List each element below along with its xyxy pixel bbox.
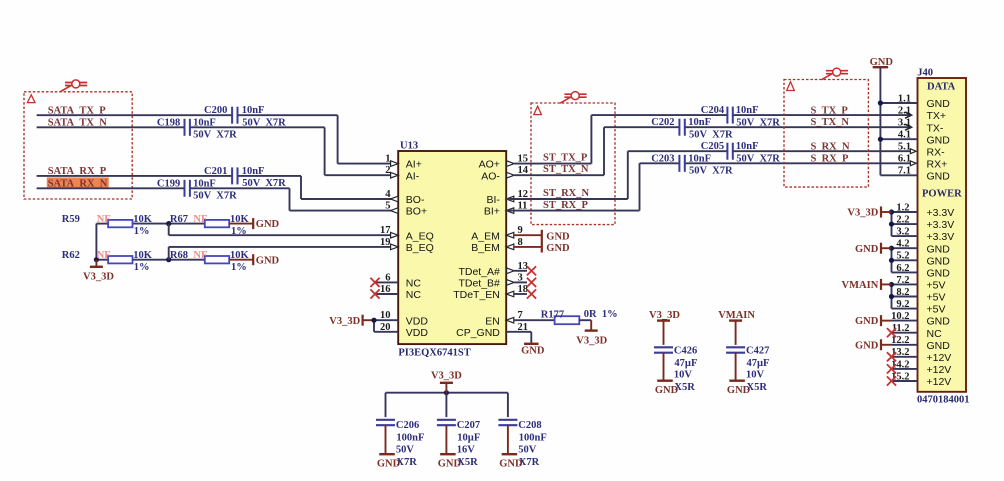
- svg-text:C200: C200: [204, 105, 227, 116]
- svg-text:R68: R68: [170, 250, 188, 261]
- svg-text:POWER: POWER: [922, 188, 962, 199]
- svg-text:R62: R62: [62, 250, 80, 261]
- svg-text:5: 5: [385, 201, 390, 212]
- svg-text:5.1: 5.1: [898, 142, 911, 153]
- svg-text:16V: 16V: [457, 444, 476, 455]
- svg-text:ST_TX_P: ST_TX_P: [543, 152, 588, 163]
- svg-text:100nF: 100nF: [396, 432, 424, 443]
- svg-text:1%: 1%: [231, 262, 247, 273]
- svg-text:0R: 0R: [584, 309, 597, 320]
- svg-text:X7R: X7R: [519, 457, 540, 468]
- svg-text:VDD: VDD: [406, 327, 429, 339]
- svg-text:C427: C427: [746, 345, 769, 356]
- svg-text:B_EM: B_EM: [471, 242, 500, 254]
- svg-text:BO-: BO-: [406, 194, 425, 206]
- svg-text:S_TX_P: S_TX_P: [811, 105, 849, 116]
- svg-text:10K: 10K: [133, 214, 153, 225]
- svg-text:+12V: +12V: [927, 376, 952, 388]
- svg-text:50V X7R: 50V X7R: [689, 130, 733, 141]
- svg-text:DATA: DATA: [927, 81, 956, 92]
- svg-text:6.1: 6.1: [898, 154, 911, 165]
- svg-text:C207: C207: [457, 420, 480, 431]
- svg-text:X5R: X5R: [747, 382, 768, 393]
- svg-text:4: 4: [385, 189, 391, 200]
- svg-text:6: 6: [385, 272, 390, 283]
- svg-text:NF: NF: [193, 214, 207, 225]
- svg-text:GND: GND: [927, 255, 951, 267]
- svg-text:10nF: 10nF: [193, 178, 216, 189]
- svg-text:BI+: BI+: [484, 206, 500, 218]
- svg-text:V3_3D: V3_3D: [83, 272, 114, 283]
- svg-text:50V X7R: 50V X7R: [193, 191, 237, 202]
- svg-text:S_RX_P: S_RX_P: [811, 154, 850, 165]
- svg-text:X5R: X5R: [457, 457, 478, 468]
- svg-text:GND: GND: [927, 340, 951, 352]
- svg-text:1.1: 1.1: [898, 93, 911, 104]
- svg-text:GND: GND: [546, 231, 570, 242]
- svg-text:R67: R67: [170, 214, 188, 225]
- svg-text:1%: 1%: [602, 309, 618, 320]
- svg-text:RX-: RX-: [927, 146, 946, 158]
- svg-text:10nF: 10nF: [193, 117, 216, 128]
- svg-text:10nF: 10nF: [688, 117, 711, 128]
- svg-text:U13: U13: [400, 140, 418, 151]
- svg-text:A_EQ: A_EQ: [406, 230, 434, 242]
- svg-text:50V: 50V: [518, 444, 537, 455]
- svg-text:TX+: TX+: [927, 110, 947, 122]
- svg-text:TDeT_EN: TDeT_EN: [453, 289, 500, 301]
- svg-text:C204: C204: [701, 105, 725, 116]
- svg-text:C202: C202: [651, 117, 674, 128]
- svg-text:R177: R177: [541, 310, 564, 321]
- svg-text:V3_3D: V3_3D: [329, 316, 360, 327]
- svg-text:BO+: BO+: [406, 206, 427, 218]
- svg-text:NF: NF: [193, 250, 207, 261]
- svg-text:47µF: 47µF: [747, 358, 770, 369]
- svg-text:10nF: 10nF: [688, 153, 711, 164]
- svg-text:CP_GND: CP_GND: [456, 327, 500, 339]
- svg-text:+12V: +12V: [927, 352, 952, 364]
- svg-text:C426: C426: [674, 345, 697, 356]
- svg-text:10nF: 10nF: [242, 105, 265, 116]
- svg-text:S_TX_N: S_TX_N: [811, 117, 850, 128]
- svg-text:0470184001: 0470184001: [917, 395, 970, 406]
- svg-text:R59: R59: [62, 214, 80, 225]
- svg-text:10K: 10K: [230, 250, 250, 261]
- svg-text:GND: GND: [927, 316, 951, 328]
- svg-text:10nF: 10nF: [736, 141, 759, 152]
- svg-text:PI3EQX6741ST: PI3EQX6741ST: [398, 347, 470, 358]
- svg-text:10K: 10K: [133, 250, 153, 261]
- svg-text:NC: NC: [406, 278, 422, 290]
- svg-text:VMAIN: VMAIN: [842, 280, 879, 291]
- svg-text:+3.3V: +3.3V: [927, 219, 955, 231]
- svg-text:C206: C206: [396, 420, 419, 431]
- svg-text:TX-: TX-: [927, 122, 944, 134]
- svg-text:16: 16: [380, 284, 391, 295]
- svg-text:AI-: AI-: [406, 170, 420, 182]
- svg-text:EN: EN: [485, 315, 500, 327]
- svg-text:GND: GND: [927, 268, 951, 280]
- svg-text:RX+: RX+: [927, 158, 948, 170]
- svg-text:S_RX_N: S_RX_N: [811, 142, 851, 153]
- svg-text:GND: GND: [927, 243, 951, 255]
- svg-text:NF: NF: [97, 250, 111, 261]
- svg-text:GND: GND: [256, 219, 280, 230]
- svg-text:C203: C203: [651, 153, 674, 164]
- svg-text:J40: J40: [917, 68, 933, 79]
- svg-text:10nF: 10nF: [736, 105, 759, 116]
- svg-text:NF: NF: [97, 214, 111, 225]
- svg-text:+5V: +5V: [927, 292, 946, 304]
- svg-text:GND: GND: [927, 170, 951, 182]
- svg-text:1: 1: [385, 154, 390, 165]
- svg-text:C208: C208: [518, 420, 541, 431]
- svg-text:VDD: VDD: [406, 315, 429, 327]
- svg-text:7.1: 7.1: [898, 166, 911, 177]
- svg-text:100nF: 100nF: [519, 432, 547, 443]
- svg-text:AI+: AI+: [406, 159, 422, 171]
- svg-text:ST_RX_N: ST_RX_N: [543, 188, 590, 199]
- svg-text:+5V: +5V: [927, 304, 946, 316]
- svg-text:V3_3D: V3_3D: [431, 370, 462, 381]
- svg-text:50V: 50V: [396, 444, 415, 455]
- svg-text:X5R: X5R: [674, 382, 695, 393]
- svg-text:V3_3D: V3_3D: [847, 208, 878, 219]
- svg-text:GND: GND: [521, 346, 545, 357]
- svg-text:X7R: X7R: [396, 457, 417, 468]
- svg-text:10µF: 10µF: [457, 432, 480, 443]
- svg-text:C198: C198: [157, 117, 180, 128]
- svg-text:V3_3D: V3_3D: [576, 335, 607, 346]
- svg-text:NC: NC: [406, 289, 422, 301]
- svg-text:1%: 1%: [231, 226, 247, 237]
- svg-text:B_EQ: B_EQ: [406, 242, 434, 254]
- svg-text:GND: GND: [855, 244, 879, 255]
- svg-text:50V X7R: 50V X7R: [689, 166, 733, 177]
- svg-text:GND: GND: [256, 255, 280, 266]
- svg-text:3.1: 3.1: [898, 118, 911, 129]
- svg-text:10V: 10V: [746, 369, 765, 380]
- svg-text:10K: 10K: [230, 214, 250, 225]
- svg-text:10nF: 10nF: [242, 166, 265, 177]
- svg-text:+3.3V: +3.3V: [927, 231, 955, 243]
- svg-text:C201: C201: [204, 166, 227, 177]
- svg-text:TDet_B#: TDet_B#: [458, 278, 500, 290]
- svg-text:GND: GND: [927, 98, 951, 110]
- svg-text:BI-: BI-: [486, 194, 500, 206]
- svg-text:C205: C205: [701, 141, 724, 152]
- svg-text:A_EM: A_EM: [471, 230, 500, 242]
- svg-text:50V X7R: 50V X7R: [193, 130, 237, 141]
- svg-text:19: 19: [380, 237, 391, 248]
- svg-text:AO+: AO+: [479, 159, 500, 171]
- svg-text:+3.3V: +3.3V: [927, 207, 955, 219]
- svg-text:17: 17: [380, 225, 391, 236]
- svg-text:ST_RX_P: ST_RX_P: [543, 200, 589, 211]
- svg-text:+5V: +5V: [927, 280, 946, 292]
- svg-text:TDet_A#: TDet_A#: [458, 266, 500, 278]
- svg-text:1%: 1%: [134, 262, 150, 273]
- svg-text:20: 20: [380, 322, 391, 333]
- svg-text:NC: NC: [927, 328, 943, 340]
- svg-text:GND: GND: [546, 243, 570, 254]
- svg-text:2: 2: [385, 165, 390, 176]
- svg-text:GND: GND: [855, 340, 879, 351]
- svg-text:10V: 10V: [674, 369, 693, 380]
- svg-text:AO-: AO-: [481, 170, 500, 182]
- svg-text:47µF: 47µF: [674, 358, 697, 369]
- svg-text:4.1: 4.1: [898, 130, 911, 141]
- svg-text:GND: GND: [927, 134, 951, 146]
- svg-text:2.1: 2.1: [898, 106, 911, 117]
- svg-text:10: 10: [380, 310, 391, 321]
- svg-text:+12V: +12V: [927, 364, 952, 376]
- svg-text:1%: 1%: [134, 226, 150, 237]
- svg-text:C199: C199: [157, 178, 180, 189]
- svg-text:ST_TX_N: ST_TX_N: [543, 164, 589, 175]
- svg-text:GND: GND: [855, 316, 879, 327]
